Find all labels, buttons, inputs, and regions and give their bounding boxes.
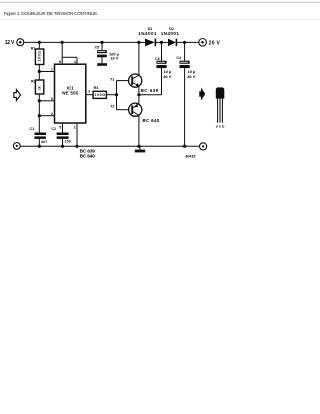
svg-text:80418: 80418	[185, 155, 195, 159]
svg-text:BC 640: BC 640	[80, 154, 96, 160]
svg-text:e c b: e c b	[216, 124, 225, 128]
svg-text:16 V: 16 V	[110, 56, 118, 61]
svg-text:BC 639: BC 639	[141, 88, 159, 93]
svg-text:R2: R2	[31, 80, 36, 84]
svg-text:6: 6	[51, 97, 53, 101]
svg-text:100Ω: 100Ω	[94, 93, 105, 97]
svg-text:C3: C3	[155, 57, 160, 61]
svg-text:C4: C4	[176, 56, 181, 60]
svg-text:12 V: 12 V	[5, 40, 15, 46]
svg-text:Figure 1. DOUBLEUR DE TENSION: Figure 1. DOUBLEUR DE TENSION CONTINUE.	[4, 11, 99, 16]
svg-text:10n: 10n	[65, 140, 72, 144]
svg-text:40 V: 40 V	[187, 74, 196, 79]
svg-text:2: 2	[51, 112, 53, 116]
svg-text:C5: C5	[95, 46, 100, 50]
svg-text:40 V: 40 V	[163, 74, 172, 79]
svg-text:5: 5	[59, 125, 61, 129]
svg-text:NE 555: NE 555	[62, 91, 79, 96]
svg-text:T2: T2	[110, 105, 114, 109]
svg-text:BC 640: BC 640	[143, 118, 160, 123]
svg-text:T1: T1	[110, 77, 114, 81]
svg-text:8: 8	[59, 60, 61, 64]
svg-text:1k: 1k	[38, 86, 42, 90]
svg-text:C2: C2	[51, 127, 56, 131]
svg-text:1N4001: 1N4001	[138, 31, 157, 36]
svg-text:4: 4	[74, 60, 76, 64]
svg-text:100Ω: 100Ω	[38, 51, 42, 61]
svg-text:1N4001: 1N4001	[161, 31, 180, 36]
svg-text:R3: R3	[94, 86, 99, 90]
svg-text:C1: C1	[30, 127, 35, 131]
svg-text:20 V: 20 V	[209, 41, 221, 47]
svg-text:1: 1	[74, 125, 76, 129]
svg-text:3: 3	[88, 89, 90, 93]
svg-text:4n7: 4n7	[41, 140, 48, 144]
svg-text:7: 7	[51, 68, 53, 72]
svg-text:R1: R1	[31, 46, 36, 50]
